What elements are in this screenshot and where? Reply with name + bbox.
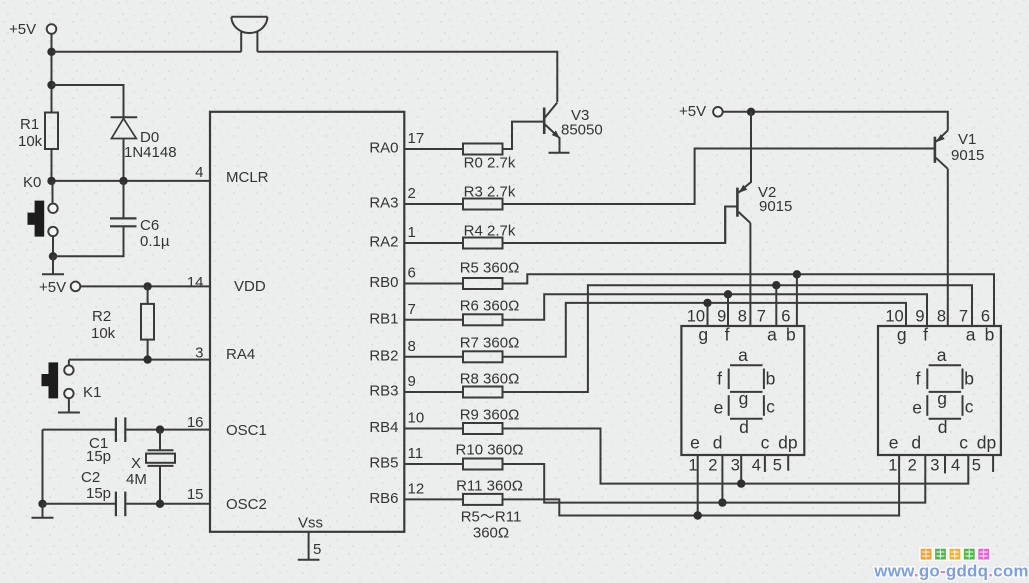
svg-text:2: 2 <box>708 456 717 474</box>
svg-text:9015: 9015 <box>951 147 984 164</box>
svg-text:15p: 15p <box>86 485 111 502</box>
svg-text:dp: dp <box>778 433 797 453</box>
pin label RB4 <box>369 419 398 436</box>
svg-text:11: 11 <box>408 445 424 462</box>
svg-text:Vss: Vss <box>298 515 323 532</box>
node D0/C6 junction on MCLR <box>119 177 127 185</box>
pin label MCLR <box>226 169 269 186</box>
pin number 12 <box>408 480 425 497</box>
svg-text:6: 6 <box>408 265 416 282</box>
wire OSC2 net left of C2 <box>43 503 116 505</box>
wire K0 bottom to C6 bottom <box>53 226 124 256</box>
pushbutton K1 <box>42 360 102 401</box>
node OSC1/crystal junction <box>156 425 164 433</box>
svg-text:3: 3 <box>731 456 740 474</box>
svg-text:e: e <box>690 433 700 453</box>
pin number 14 <box>187 274 204 291</box>
svg-text:g: g <box>698 325 708 345</box>
svg-text:9015: 9015 <box>759 198 792 215</box>
transistor V2 9015 <box>725 112 792 243</box>
svg-text:+5V: +5V <box>9 21 36 38</box>
svg-text:OSC2: OSC2 <box>226 496 267 513</box>
wire R4 to V2 base <box>503 207 737 244</box>
DS2 segment f bar <box>926 369 928 390</box>
DS2 segment a <box>929 364 962 366</box>
svg-text:c: c <box>959 433 968 453</box>
svg-text:R4 2.7k: R4 2.7k <box>464 223 516 240</box>
svg-text:1: 1 <box>888 456 897 474</box>
node K0/MCLR junction <box>47 177 55 185</box>
svg-text:9: 9 <box>915 308 924 326</box>
resistor R1 <box>18 113 58 151</box>
svg-text:R3 2.7k: R3 2.7k <box>464 184 516 201</box>
svg-text:5: 5 <box>972 456 981 474</box>
svg-text:R8 360Ω: R8 360Ω <box>460 371 520 388</box>
svg-text:7: 7 <box>408 301 416 318</box>
watermark url text <box>873 562 1028 581</box>
DS1 segment e bar <box>728 395 730 416</box>
pin label VDD <box>234 278 266 295</box>
svg-text:d: d <box>739 417 749 437</box>
pin label OSC1 <box>226 422 267 439</box>
wire OSC1 net to IC (pin 16) <box>125 429 210 431</box>
node R2/RA4 junction <box>143 355 151 363</box>
wire bus B4 R7 to segment-g pins <box>503 303 907 357</box>
resistor R4 <box>463 223 516 249</box>
node OSC2/crystal junction <box>156 500 164 508</box>
pin label RB5 <box>369 455 398 472</box>
wire node to D0 anode top <box>52 85 124 117</box>
svg-text:RB2: RB2 <box>369 347 398 364</box>
pin label RB2 <box>369 347 398 364</box>
resistor R8 <box>460 371 520 398</box>
resistor R0 <box>463 144 516 172</box>
svg-text:b: b <box>766 369 776 389</box>
wire OSC1 net left of C1 <box>43 429 116 431</box>
wire bus B3 R6 to segment-f pins <box>503 294 928 326</box>
transistor V1 9015 <box>935 131 984 169</box>
capacitor C6 0.1u <box>110 217 170 250</box>
svg-text:RA3: RA3 <box>369 195 398 212</box>
wire bus H1 R9 to segment-c pins <box>503 429 969 484</box>
svg-text:7: 7 <box>959 308 968 326</box>
capacitor C2 15p <box>81 469 125 516</box>
resistor R3 <box>463 184 516 210</box>
svg-text:8: 8 <box>408 338 416 355</box>
svg-text:8: 8 <box>738 308 747 326</box>
svg-text:14: 14 <box>187 274 204 291</box>
svg-text:MCLR: MCLR <box>226 169 269 186</box>
svg-text:f: f <box>725 325 730 345</box>
svg-text:f: f <box>923 325 928 345</box>
svg-text:6: 6 <box>781 308 790 326</box>
svg-text:6: 6 <box>981 308 990 326</box>
svg-text:OSC1: OSC1 <box>226 422 267 439</box>
DS1 segment c bar <box>763 395 765 416</box>
svg-text:www.go-gddq.com: www.go-gddq.com <box>873 562 1028 581</box>
pin label RA2 <box>369 234 398 251</box>
DS2 segment c bar <box>962 395 964 416</box>
pin label RB6 <box>369 490 398 507</box>
left rail OSC wires <box>42 430 44 504</box>
wire pin 6 to R5 <box>404 283 463 285</box>
svg-text:c: c <box>761 433 770 453</box>
svg-text:RB0: RB0 <box>369 274 398 291</box>
svg-text:V1: V1 <box>958 131 976 148</box>
DS1 segment a <box>730 364 763 366</box>
speaker BL <box>231 17 267 52</box>
svg-text:RA0: RA0 <box>369 140 398 157</box>
IC U1 (PIC microcontroller) <box>210 112 404 532</box>
wire pin 9 to R8 <box>404 391 463 393</box>
node +5V / V2 emitter junction <box>747 108 755 116</box>
DS2 segment g <box>929 391 962 393</box>
wire RA4 net (pin 3) <box>69 359 210 361</box>
+5V supply terminal (top left) <box>9 21 56 38</box>
node DS1 pin10 on bus B4 <box>703 299 711 307</box>
svg-text:C2: C2 <box>81 469 100 486</box>
node DS1 pin9 on bus B3 <box>724 290 732 298</box>
wire MCLR node to C6 top <box>123 181 125 219</box>
pin label RA3 <box>369 195 398 212</box>
svg-text:R5〜R11: R5〜R11 <box>461 509 522 526</box>
svg-text:a: a <box>937 345 947 365</box>
svg-text:g: g <box>739 389 749 409</box>
wire +5V rail down to R1 <box>51 34 53 113</box>
resistor R10 <box>456 442 524 470</box>
pin number 15 <box>187 486 204 503</box>
svg-text:8: 8 <box>937 308 946 326</box>
svg-text:4: 4 <box>951 456 960 474</box>
wire speaker to V3 collector <box>257 52 557 102</box>
DS2 segment d <box>929 418 962 420</box>
+5V supply terminal (VDD) <box>39 279 80 296</box>
ground under V3 <box>549 147 570 153</box>
svg-text:d: d <box>938 417 948 437</box>
DS2 segment b bar <box>962 369 964 390</box>
svg-text:K1: K1 <box>83 384 101 401</box>
wire R1 to K0 node <box>51 149 53 181</box>
pin number 11 <box>408 445 424 462</box>
svg-text:15: 15 <box>187 486 204 503</box>
pin label RA0 <box>369 140 398 157</box>
svg-text:R2: R2 <box>92 308 111 325</box>
resistor R6 <box>460 298 520 326</box>
pin number 16 <box>187 414 204 431</box>
svg-text:RB5: RB5 <box>369 455 398 472</box>
pin number 6 <box>408 265 416 282</box>
svg-text:9: 9 <box>717 308 726 326</box>
svg-text:3: 3 <box>930 456 939 474</box>
transistor V3 85050 <box>544 103 603 147</box>
svg-text:1: 1 <box>408 224 416 241</box>
svg-text:e: e <box>889 433 899 453</box>
svg-text:K0: K0 <box>23 174 41 191</box>
node DS1 pin3 on bus H1 <box>737 479 745 487</box>
svg-text:R0 2.7k: R0 2.7k <box>464 155 516 172</box>
svg-text:12: 12 <box>408 480 425 497</box>
wire +5V to V1 emitter <box>723 112 948 131</box>
label R5~R11 360ohm <box>461 509 522 542</box>
pin number 3 <box>195 345 203 362</box>
node junction +5V/speaker wire <box>47 48 55 56</box>
svg-text:4M: 4M <box>126 471 147 488</box>
wire bus H3 R11 to segment-e pins <box>503 455 900 516</box>
svg-text:b: b <box>985 325 995 345</box>
wire pin 2 to R3 <box>404 203 463 205</box>
node rail/OSC2 junction <box>38 500 46 508</box>
DS1 segment g <box>730 391 763 393</box>
svg-text:RA2: RA2 <box>369 234 398 251</box>
svg-text:g: g <box>937 389 947 409</box>
DS2 unconnected bottom stubs <box>945 455 993 473</box>
Vss ground pin 5 <box>298 532 322 560</box>
wire MCLR net (pin 4) <box>52 180 211 182</box>
svg-text:R9 360Ω: R9 360Ω <box>460 407 520 424</box>
svg-text:R7 360Ω: R7 360Ω <box>460 335 520 352</box>
svg-text:RB1: RB1 <box>369 310 398 327</box>
svg-text:X: X <box>131 455 141 472</box>
svg-text:RA4: RA4 <box>226 346 255 363</box>
node DS1 pin1 on bus H3 <box>694 511 702 519</box>
svg-text:+5V: +5V <box>679 103 706 120</box>
svg-text:7: 7 <box>757 308 766 326</box>
svg-text:5: 5 <box>773 456 782 474</box>
svg-text:R5 360Ω: R5 360Ω <box>460 260 520 277</box>
+5V supply terminal (right) <box>679 103 723 120</box>
svg-text:a: a <box>966 325 976 345</box>
svg-text:c: c <box>965 397 974 417</box>
svg-text:R11 360Ω: R11 360Ω <box>456 478 523 495</box>
pin number 2 <box>408 185 416 202</box>
svg-text:4: 4 <box>195 164 203 181</box>
svg-text:a: a <box>767 325 777 345</box>
7-segment display DS2 <box>878 326 1001 455</box>
wire pin 1 to R4 <box>404 242 463 244</box>
svg-text:4: 4 <box>752 456 761 474</box>
svg-text:360Ω: 360Ω <box>473 525 509 542</box>
svg-text:b: b <box>786 325 796 345</box>
svg-text:VDD: VDD <box>234 278 266 295</box>
svg-text:17: 17 <box>408 130 425 147</box>
DS2 segment e bar <box>926 395 928 416</box>
pin number 10 <box>408 410 425 427</box>
wire pin 10 to R9 <box>404 428 463 430</box>
svg-text:5: 5 <box>313 541 321 558</box>
wire pin 17 to R0 <box>404 148 463 150</box>
DS1 bottom pin stubs <box>698 455 789 516</box>
svg-text:f: f <box>916 369 921 389</box>
DS1 segment b bar <box>763 369 765 390</box>
svg-text:2: 2 <box>408 185 416 202</box>
node DS1 pin2 on bus H2 <box>718 498 726 506</box>
wire OSC2 net to IC (pin 15) <box>125 503 210 505</box>
ground bottom left <box>32 504 54 518</box>
svg-text:d: d <box>713 433 723 453</box>
svg-text:85050: 85050 <box>561 122 603 139</box>
capacitor C1 15p <box>86 417 125 465</box>
svg-text:10k: 10k <box>91 325 116 342</box>
svg-text:b: b <box>964 369 974 389</box>
wire R0 to V3 base <box>503 122 544 149</box>
wire R3 to V1 base <box>503 149 935 205</box>
pin label RA4 <box>226 346 255 363</box>
pin label Vss <box>298 515 323 532</box>
pin label RB0 <box>369 274 398 291</box>
svg-text:9: 9 <box>408 373 416 390</box>
pushbutton K0 <box>23 174 58 256</box>
pin number 7 <box>408 301 416 318</box>
7-segment display DS1 <box>681 326 804 455</box>
resistor R2 <box>91 286 154 359</box>
resistor R7 <box>460 335 520 363</box>
resistor R9 <box>460 407 520 435</box>
svg-text:R6 360Ω: R6 360Ω <box>460 298 520 315</box>
svg-text:15p: 15p <box>86 448 111 465</box>
svg-text:10: 10 <box>408 410 425 427</box>
svg-text:c: c <box>766 397 775 417</box>
resistor R5 <box>460 260 520 290</box>
svg-text:dp: dp <box>977 433 996 453</box>
svg-text:R1: R1 <box>20 116 39 133</box>
svg-text:1N4148: 1N4148 <box>124 144 177 161</box>
wire V1 collector to display 2 pin 8 <box>947 169 949 326</box>
node junction D0 branch <box>47 81 55 89</box>
svg-text:0.1µ: 0.1µ <box>140 233 170 250</box>
wire bus H2 R10 to segment-d pins <box>503 455 926 503</box>
svg-text:f: f <box>717 369 722 389</box>
resistor R11 <box>456 478 523 505</box>
DS1 segment d <box>730 418 763 420</box>
pin number 4 <box>195 164 203 181</box>
svg-text:g: g <box>897 325 907 345</box>
svg-text:R10 360Ω: R10 360Ω <box>456 442 524 459</box>
wire VDD net (pin 14) <box>80 285 210 287</box>
svg-text:10: 10 <box>687 308 705 326</box>
node VDD/R2 junction <box>143 282 151 290</box>
svg-text:C6: C6 <box>140 217 159 234</box>
wire V2 collector to display 1 pin 8 <box>749 223 751 326</box>
DS1 segment f bar <box>728 369 730 390</box>
ground under K0 <box>42 256 64 274</box>
svg-text:RB4: RB4 <box>369 419 398 436</box>
wire speaker feed (left) <box>52 51 242 53</box>
pin number 17 <box>408 130 425 147</box>
diode D0 1N4148 <box>111 117 177 161</box>
node DS1 pin6 on bus B1 <box>793 270 801 278</box>
wire bus B2 R8 to segment-a pins <box>503 285 973 392</box>
wire bus B1 R5 to segment-b pins <box>503 274 995 326</box>
svg-text:e: e <box>912 398 922 418</box>
svg-text:a: a <box>738 345 748 365</box>
svg-text:2: 2 <box>908 456 917 474</box>
pin label RB1 <box>369 310 398 327</box>
svg-text:10: 10 <box>885 308 903 326</box>
svg-text:16: 16 <box>187 414 204 431</box>
svg-text:e: e <box>714 398 724 418</box>
pin number 9 <box>408 373 416 390</box>
svg-text:RB3: RB3 <box>369 383 398 400</box>
ground under K1 <box>58 398 80 412</box>
wire D0 to MCLR net <box>123 139 125 181</box>
pin number 8 <box>408 338 416 355</box>
svg-text:d: d <box>911 433 921 453</box>
node K0 bottom junction <box>49 252 57 260</box>
svg-text:3: 3 <box>195 345 203 362</box>
wire pin 11 to R10 <box>404 463 463 465</box>
wire pin 7 to R6 <box>404 319 463 321</box>
svg-text:10k: 10k <box>18 133 43 150</box>
pin label OSC2 <box>226 496 267 513</box>
wire pin 8 to R7 <box>404 356 463 358</box>
watermark logo blocks <box>920 548 990 560</box>
svg-text:RB6: RB6 <box>369 490 398 507</box>
svg-text:+5V: +5V <box>39 279 66 296</box>
wire pin 12 to R11 <box>404 498 463 500</box>
crystal X 4M <box>126 430 175 504</box>
pin number 1 <box>408 224 416 241</box>
DS1 top pin stubs <box>708 274 797 326</box>
svg-text:1: 1 <box>688 456 697 474</box>
node DS1 pin7 on bus B2 <box>772 281 780 289</box>
pin label RB3 <box>369 383 398 400</box>
